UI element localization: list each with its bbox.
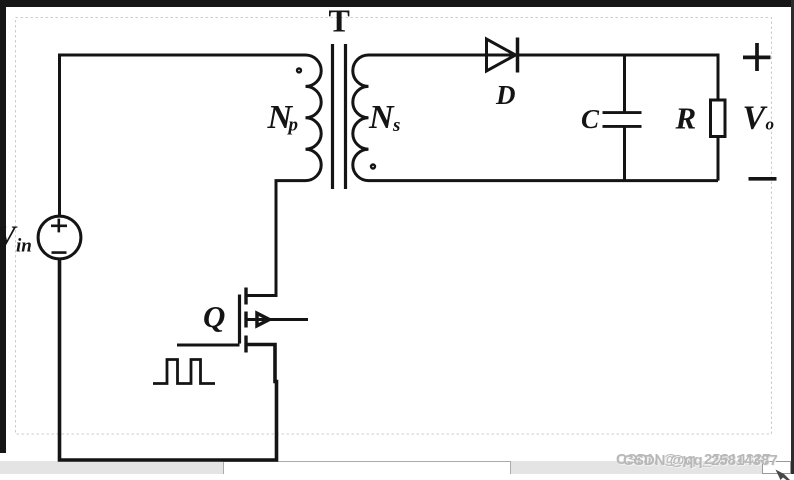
svg-text:s: s bbox=[392, 115, 400, 136]
svg-text:V: V bbox=[743, 100, 768, 137]
svg-text:T: T bbox=[329, 3, 350, 39]
svg-text:in: in bbox=[16, 236, 32, 257]
svg-text:N: N bbox=[368, 99, 395, 136]
svg-text:o: o bbox=[766, 115, 775, 134]
svg-text:D: D bbox=[495, 80, 516, 110]
svg-text:R: R bbox=[675, 101, 697, 136]
svg-text:Q: Q bbox=[203, 299, 225, 334]
svg-text:C: C bbox=[581, 104, 600, 134]
svg-text:p: p bbox=[287, 115, 299, 136]
